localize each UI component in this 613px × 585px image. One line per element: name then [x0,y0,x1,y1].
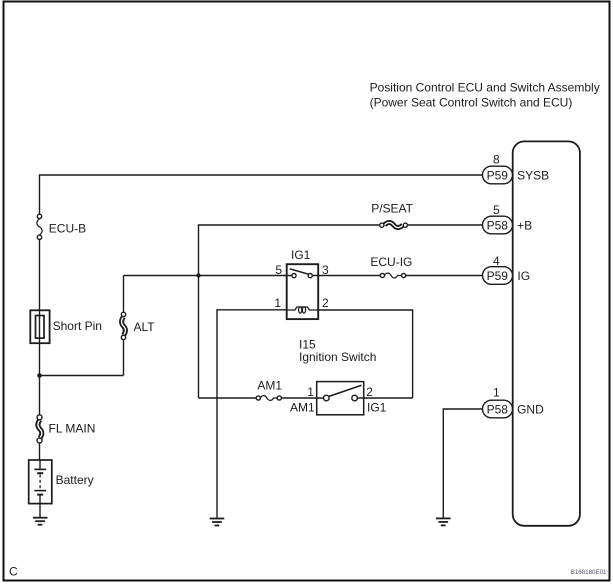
wire AM1 row: branch to fuse [199,397,257,399]
ground: battery [33,518,48,525]
ignition switch I15 box [317,382,364,415]
fuse ECU-B [37,214,86,239]
wire left bus: ECU-B fuse to FL MAIN [39,240,41,415]
svg-text:ECU-B: ECU-B [49,221,86,235]
ground: ignition switch branch [210,519,225,526]
title: Position Control ECU and Switch Assembly [370,80,600,109]
wire ALT branch vertical [123,276,125,376]
svg-text:IG1: IG1 [367,400,387,414]
svg-text:Ignition Switch: Ignition Switch [299,350,376,364]
fuse AM1 [256,379,282,401]
ground: ECU GND [436,518,451,525]
svg-text:P58: P58 [487,402,509,416]
svg-text:GND: GND [517,402,544,416]
pin 8 SYSB oval P59 [483,153,550,184]
wire IG row: ALT branch to relay pin 5 [124,275,292,277]
svg-text:Battery: Battery [56,473,94,487]
wire IG row: ECU-IG fuse to IG pin [406,275,483,277]
wire relay pin 1 to ground branch [217,310,287,518]
svg-text:5: 5 [493,203,500,217]
svg-text:1: 1 [274,296,281,310]
short pin connector [30,310,102,343]
svg-text:8: 8 [493,153,500,167]
svg-text:P58: P58 [487,218,509,232]
svg-text:IG1: IG1 [291,248,311,262]
svg-text:IG: IG [517,269,530,283]
junction node: IG row / branch vertical [196,273,200,277]
battery [29,460,94,518]
wire ALT branch horizontal [40,375,124,377]
svg-text:Position Control ECU and Switc: Position Control ECU and Switch Assembly [370,80,600,94]
wire AM1 row: switch pin 2 to vertical [357,397,412,399]
pin 5 +B oval P58 [483,203,533,234]
svg-text:AM1: AM1 [257,379,282,393]
svg-text:4: 4 [493,254,500,268]
svg-text:P59: P59 [487,168,509,182]
svg-text:5: 5 [275,263,282,277]
wire P/SEAT row: branch vertical to +B pin [199,225,483,398]
pin 1 GND oval P58 [483,385,545,417]
svg-text:(Power Seat Control Switch and: (Power Seat Control Switch and ECU) [370,95,573,109]
svg-text:3: 3 [322,263,329,277]
svg-text:AM1: AM1 [290,400,315,414]
svg-text:ECU-IG: ECU-IG [370,255,412,269]
fusible link FL MAIN [37,415,95,443]
svg-text:C: C [9,565,18,579]
junction node: left bus / ALT branch [37,373,42,378]
wire left bus: FL MAIN to battery [39,443,41,460]
wire relay pin 2 to switch pin 2 [318,310,412,398]
svg-text:SYSB: SYSB [517,168,549,182]
svg-text:1: 1 [493,385,500,399]
svg-text:Short Pin: Short Pin [53,319,102,333]
svg-text:1: 1 [307,385,314,399]
wire GND pin to ground [443,409,482,518]
wire IG row: relay pin 3 to ECU-IG fuse [312,275,380,277]
svg-text:2: 2 [322,296,329,310]
pin 4 IG oval P59 [483,254,531,284]
relay IG1 coil [287,307,319,313]
svg-text:P/SEAT: P/SEAT [371,202,413,216]
fusible link ALT [121,312,155,339]
ECU connector body U1 (Position Control ECU) [513,141,580,525]
wire AM1 row: fuse to switch pin 1 [281,397,323,399]
fuse ECU-IG [370,255,412,278]
fusible link P/SEAT [371,202,413,228]
wire SYSB row: left bus to pin 8 [40,175,483,214]
label I15 Ignition Switch [299,338,376,365]
svg-text:2: 2 [366,385,373,399]
relay IG1 [287,248,319,319]
svg-text:+B: +B [517,218,532,232]
svg-text:P59: P59 [487,269,509,283]
relay IG1 contact [290,269,313,278]
svg-text:ALT: ALT [134,320,156,334]
svg-text:B168180E01: B168180E01 [571,569,607,576]
svg-text:FL MAIN: FL MAIN [49,421,96,435]
